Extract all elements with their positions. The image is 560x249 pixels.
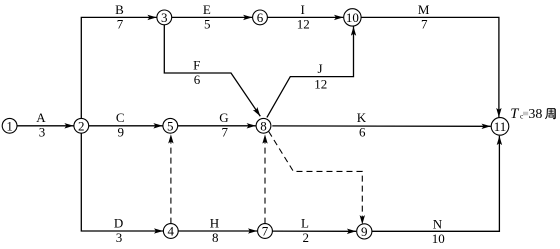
svg-text:2: 2 xyxy=(303,230,310,245)
svg-text:10: 10 xyxy=(432,231,445,246)
svg-text:K: K xyxy=(357,110,367,125)
label Tc=38 weeks xyxy=(510,106,542,122)
wire activity L arrow 7-9 xyxy=(272,230,356,232)
svg-text:5: 5 xyxy=(204,16,211,31)
svg-text:12: 12 xyxy=(314,76,327,91)
label N/10 xyxy=(432,216,445,245)
svg-text:8: 8 xyxy=(212,230,219,245)
svg-text:3: 3 xyxy=(116,230,123,245)
label M/7 xyxy=(418,2,430,32)
svg-text:B: B xyxy=(115,2,124,17)
wire activity I arrow 6-10 xyxy=(267,16,343,18)
svg-text:5: 5 xyxy=(167,118,174,133)
label zhou (week) character xyxy=(545,109,555,119)
svg-text:6: 6 xyxy=(359,125,366,140)
svg-text:2: 2 xyxy=(78,118,85,133)
label I/12 xyxy=(297,2,310,32)
svg-text:I: I xyxy=(301,2,305,17)
label J/12 xyxy=(314,61,327,91)
wire dummy arrow 8-9 dashed elbow xyxy=(269,132,363,225)
svg-text:3: 3 xyxy=(161,10,168,25)
label L/2 xyxy=(301,215,309,244)
svg-text:11: 11 xyxy=(494,119,507,134)
node 6 xyxy=(253,10,268,25)
svg-text:A: A xyxy=(36,110,46,125)
svg-text:J: J xyxy=(317,61,322,76)
wire activity D arrow 2-4 elbow xyxy=(81,133,163,231)
svg-text:9: 9 xyxy=(361,224,368,239)
svg-text:38: 38 xyxy=(528,107,542,122)
label K/6 xyxy=(357,110,367,139)
svg-text:N: N xyxy=(433,216,443,231)
svg-text:7: 7 xyxy=(262,224,269,239)
svg-text:4: 4 xyxy=(168,224,175,239)
node 2 xyxy=(74,118,89,133)
label A/3 xyxy=(36,110,46,139)
node 3 xyxy=(157,10,172,25)
label G/7 xyxy=(219,110,228,139)
wire activity K arrow 8-11 xyxy=(272,125,491,127)
svg-text:7: 7 xyxy=(117,16,124,31)
wire activity F arrow 3-8 elbow xyxy=(164,25,260,116)
node 10 xyxy=(344,9,361,26)
svg-text:7: 7 xyxy=(222,125,229,140)
wire activity J arrow 8-10 elbow xyxy=(267,27,354,118)
node 7 xyxy=(258,224,273,239)
svg-text:C: C xyxy=(116,110,125,125)
svg-text:12: 12 xyxy=(297,16,310,31)
svg-text:6: 6 xyxy=(257,10,264,25)
svg-text:G: G xyxy=(219,110,228,125)
svg-text:10: 10 xyxy=(346,10,359,25)
svg-text:D: D xyxy=(114,215,123,230)
wire activity C arrow 2-5 xyxy=(89,125,163,127)
svg-text:9: 9 xyxy=(118,125,125,140)
svg-text:F: F xyxy=(193,57,200,72)
wire activity M arrow 10-11 elbow xyxy=(361,17,499,117)
wire activity A arrow 1-2 xyxy=(17,125,73,127)
node 5 xyxy=(163,118,178,133)
label F/6 xyxy=(193,57,201,86)
node 11 xyxy=(491,118,509,136)
svg-text:M: M xyxy=(418,2,430,17)
wire dummy arrow 4-5 dashed xyxy=(170,134,172,223)
label H/8 xyxy=(210,215,219,244)
svg-text:7: 7 xyxy=(421,16,428,31)
wire activity N arrow 9-11 elbow xyxy=(372,136,500,232)
label C/9 xyxy=(116,110,125,139)
label E/5 xyxy=(203,2,211,32)
label B/7 xyxy=(115,2,124,32)
wire activity G arrow 5-8 xyxy=(178,125,256,127)
node 9 xyxy=(357,224,372,239)
wire activity B arrow 2-3 elbow xyxy=(81,17,156,118)
label D/3 xyxy=(114,215,123,244)
svg-text:H: H xyxy=(210,215,219,230)
wire activity H arrow 4-7 xyxy=(178,230,257,232)
svg-text:6: 6 xyxy=(194,72,201,87)
svg-text:E: E xyxy=(203,2,211,17)
wire activity E arrow 3-6 xyxy=(172,16,253,18)
node 8 xyxy=(256,118,271,133)
svg-text:T: T xyxy=(510,106,519,122)
node 4 xyxy=(163,224,178,239)
svg-text:1: 1 xyxy=(6,118,13,133)
svg-text:L: L xyxy=(301,215,309,230)
svg-text:3: 3 xyxy=(39,125,46,140)
node 1 xyxy=(2,118,17,133)
wire dummy arrow 7-8 dashed xyxy=(264,134,266,223)
svg-text:8: 8 xyxy=(260,118,267,133)
